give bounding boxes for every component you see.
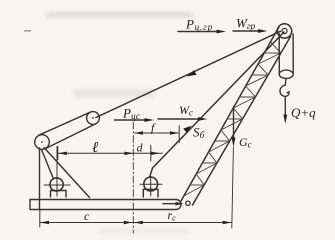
rear winch drum [144,177,158,191]
strut lower tangent [45,124,95,149]
front winch drum [50,178,63,191]
rear winch vertical line [150,177,152,197]
dimension f: right tick [178,126,180,143]
force arrow P_c.gr (top) [178,30,226,34]
front winch axis line [44,184,70,186]
small pen dash top-left [24,30,31,32]
svg-text:Q+q: Q+q [291,105,316,120]
dimension f line and arrows [134,131,179,134]
boom head pulley [277,24,291,38]
faint smudge mid-left [74,89,154,98]
hook block cylinder right rope [292,34,294,74]
rear winch axis line [140,183,162,185]
arrow at boom-foot hinge on platform [163,202,184,206]
front winch vertical line [56,147,58,197]
mast extension line to dimension [39,210,41,228]
svg-text:d: d [137,141,144,155]
arrowhead of S6 pointing up-right [183,126,191,133]
force arrow P_cs [115,118,155,122]
hoist rope S6 from rear winch to boom head [150,32,284,177]
boom-hoist cable strut top to boom head [96,31,280,117]
tick at left end [57,147,59,160]
arrowhead on cable pointing down-left [187,70,197,76]
faint smudge bottom [100,228,188,234]
force arrow Q+q [283,98,287,125]
force arrow W_gr (top) [233,29,268,33]
front winch pedestal [51,191,67,198]
rope from mast pulley to front winch [42,150,54,180]
platform (portal frame) [30,200,181,210]
boom right chord [193,37,291,206]
axis of rotation dash-dot centre line [132,122,134,233]
d extension tick at winch line [150,146,152,162]
hook [280,79,289,97]
dimension l and d line [58,147,163,160]
strut top pulley [87,112,100,125]
force arrow W_c [158,117,208,121]
strut (gantry cylinder) upper tangent [39,112,91,135]
mast top pulley [35,135,50,150]
hook block cylinder left rope [278,34,280,74]
boom lattice rungs [190,53,281,185]
svg-text:ℓ: ℓ [92,140,98,156]
mast vertical line [39,148,41,210]
A-frame diagonal brace [44,148,90,198]
boom left chord [181,27,279,201]
G_c extension line down to r_c dimension [232,147,234,228]
rear winch pedestal [143,189,158,197]
dimension c / r_c line [40,221,232,224]
hook block bottom ellipse [279,70,293,78]
faint bleed-through streak top [46,13,193,18]
svg-text:c: c [84,209,90,223]
force arrow G_c [232,108,236,147]
boom foot pivot circle o [186,201,190,205]
boom lattice zigzag [184,42,281,196]
